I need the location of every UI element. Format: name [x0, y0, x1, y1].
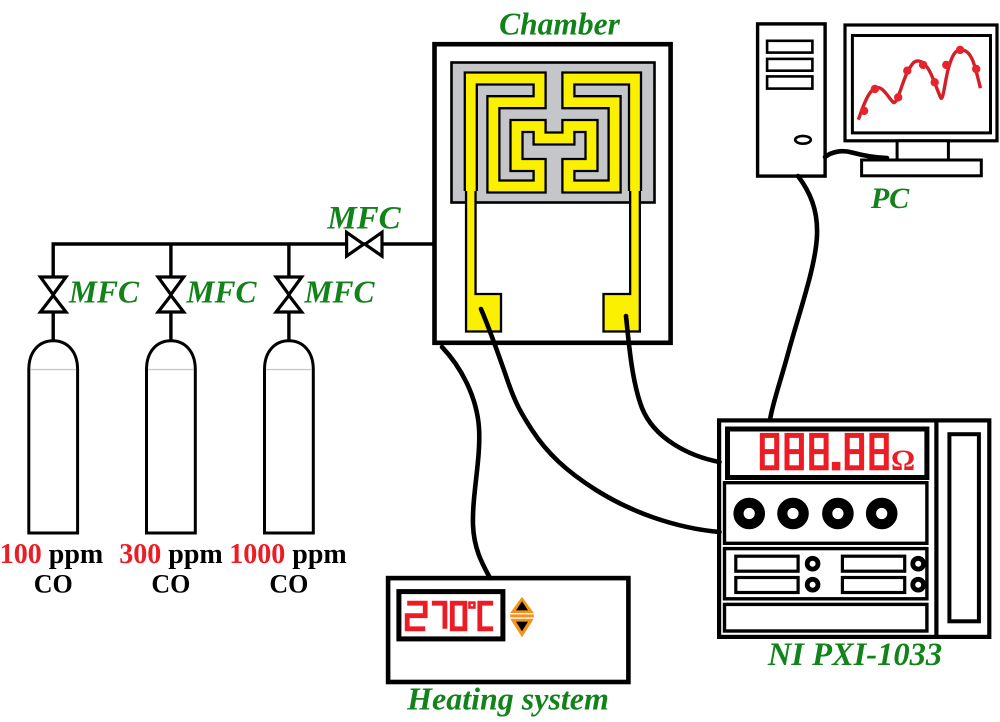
knob 1	[739, 503, 760, 524]
lower panel circle R2	[913, 579, 924, 590]
knob 3	[827, 503, 848, 524]
wire left pad to NI PXI	[481, 309, 720, 532]
gas cylinder 1	[29, 341, 78, 533]
7seg digit 8 (2)	[787, 435, 801, 467]
cylinder 3 shoulder line	[266, 369, 312, 371]
svg-text:Ω: Ω	[891, 444, 915, 477]
sensor spiral trace outline	[471, 79, 635, 192]
7seg digit 8 (5)	[872, 435, 886, 467]
NI display panel	[728, 429, 927, 478]
heater digit 0	[452, 603, 465, 629]
heater up button inner	[516, 601, 528, 610]
lower panel circle L1	[807, 558, 818, 569]
MFC valve V2	[158, 277, 184, 312]
MFC valve V3	[276, 277, 302, 312]
7seg digit 8 (3)	[812, 435, 826, 467]
cylinder 1 shoulder line	[30, 369, 76, 371]
NI lower panel	[725, 549, 927, 599]
heater up button	[510, 597, 534, 613]
NI PXI side slot	[949, 434, 979, 621]
riser cylinder 3 upper	[287, 244, 290, 278]
svg-text:MFC: MFC	[186, 275, 258, 310]
heater down button inner	[516, 622, 528, 632]
chamber box	[435, 44, 671, 343]
lower panel slot R1	[842, 556, 904, 571]
riser cylinder 1 lower	[52, 312, 55, 343]
heater down button	[510, 619, 534, 638]
PC tower	[758, 24, 826, 176]
svg-text:NI PXI-1033: NI PXI-1033	[767, 637, 942, 673]
riser cylinder 2 upper	[169, 244, 172, 278]
gas cylinder 2	[147, 341, 196, 533]
decimal point	[832, 462, 841, 471]
NI PXI divider	[934, 420, 938, 637]
svg-text:MFC: MFC	[68, 275, 140, 310]
monitor stand neck	[897, 141, 948, 160]
wire right pad to NI PXI	[626, 316, 720, 462]
wire PC tower to NI PXI	[770, 176, 817, 420]
NI bottom strip	[725, 604, 927, 631]
svg-text:1000 ppm: 1000 ppm	[229, 539, 346, 570]
monitor stand base	[862, 160, 982, 176]
monitor outer frame	[845, 25, 997, 141]
heater divider bar	[510, 614, 534, 617]
svg-text:CO: CO	[34, 570, 73, 599]
lower panel slot R2	[842, 578, 904, 593]
riser cylinder 2 lower	[169, 312, 172, 343]
MFC valve V1	[40, 277, 66, 312]
monitor screen	[852, 36, 990, 133]
sensor spiral trace yellow	[471, 79, 635, 192]
knob 2	[782, 503, 803, 524]
7seg digit 8 (1)	[762, 435, 776, 467]
lower panel slot L2	[736, 578, 798, 593]
degree symbol	[470, 603, 475, 608]
sensor electrode left terminal pad	[466, 187, 501, 332]
svg-text:CO: CO	[151, 570, 190, 599]
screen red curve	[858, 50, 980, 120]
sensor substrate	[452, 63, 655, 203]
wire left pad to heater via chamber border	[442, 347, 490, 578]
heater display bezel	[399, 592, 503, 639]
7seg digit 8 (4)	[847, 435, 861, 467]
manifold line	[53, 244, 434, 278]
svg-text:CO: CO	[269, 570, 308, 599]
svg-text:MFC: MFC	[304, 275, 376, 310]
gas cylinder 3	[265, 341, 314, 533]
heater digit 2	[407, 603, 425, 629]
lower panel circle L2	[807, 579, 818, 590]
svg-text:100 ppm: 100 ppm	[0, 539, 103, 570]
lower panel slot L1	[736, 556, 798, 571]
cylinder 2 shoulder line	[148, 369, 194, 371]
heater digit C	[480, 603, 493, 629]
tower slot 3	[767, 76, 812, 88]
heater digit 7	[432, 603, 445, 629]
lower panel circle R1	[913, 558, 924, 569]
tower slot 1	[767, 41, 812, 53]
knob 4	[871, 503, 892, 524]
svg-text:PC: PC	[870, 182, 910, 215]
cable tower to monitor	[825, 151, 887, 158]
sensor electrode right terminal pad	[604, 187, 640, 332]
tower button	[795, 136, 811, 144]
svg-text:300 ppm: 300 ppm	[119, 539, 222, 570]
heating system box	[388, 578, 628, 682]
MFC valve V4 horizontal	[347, 232, 382, 256]
svg-text:Chamber: Chamber	[499, 6, 621, 41]
tower slot 2	[767, 59, 812, 71]
riser cylinder 3 lower	[287, 312, 290, 343]
curve data dots	[860, 46, 981, 115]
NI PXI outer box	[719, 420, 989, 637]
NI knob panel	[725, 483, 927, 544]
svg-text:Heating system: Heating system	[406, 681, 609, 717]
svg-text:MFC: MFC	[326, 201, 401, 237]
